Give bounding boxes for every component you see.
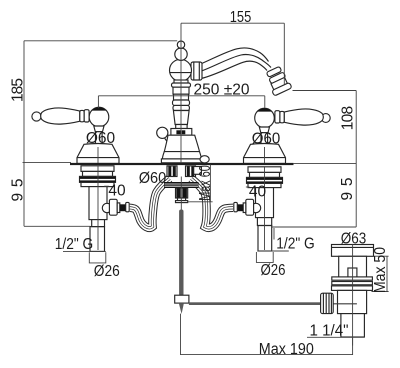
dim 95 right extension	[272, 226, 356, 228]
handle ball joint	[89, 107, 109, 127]
ring bar 3	[332, 286, 373, 291]
escutcheon right	[244, 144, 286, 164]
svg-text:1/2" G: 1/2" G	[55, 236, 94, 253]
lower pipe	[90, 227, 105, 252]
bell skirt	[162, 152, 201, 159]
svg-text:1 1/4": 1 1/4"	[310, 322, 349, 339]
CENTER BELOW DECK	[164, 166, 321, 314]
column bulge 3	[173, 105, 189, 110]
svg-text:Ø60: Ø60	[139, 170, 167, 187]
washer plate 2	[83, 171, 113, 176]
dim 250 line	[98, 95, 264, 97]
escutcheon centerline right	[264, 147, 266, 163]
valve dark block	[237, 204, 243, 211]
svg-text:1/2" G: 1/2" G	[276, 235, 315, 252]
dim Max50 top tick	[373, 255, 388, 257]
horizontal pop-up rod	[189, 302, 321, 305]
ball dark cap	[92, 107, 107, 110]
drain 1 1/4 underline	[307, 336, 364, 338]
dim O26 right bracket	[256, 252, 273, 262]
rod clamp block	[175, 295, 189, 303]
spout tube middle curve	[201, 55, 271, 72]
handle neck	[259, 127, 269, 133]
finial ball small	[177, 41, 184, 48]
tail pipe	[341, 314, 365, 337]
finial ball large	[175, 48, 187, 60]
rod inside drain	[333, 303, 357, 305]
vertical pull rod	[179, 210, 183, 297]
deck thin extension left	[23, 161, 72, 163]
lever small ball	[321, 114, 330, 123]
deck thick line	[70, 163, 294, 165]
valve ball	[102, 203, 111, 212]
center axis thin	[180, 177, 182, 210]
center connector right	[186, 166, 196, 177]
tail ring	[178, 198, 186, 201]
column bulge 1	[172, 83, 191, 87]
svg-text:250 ±20: 250 ±20	[194, 82, 250, 99]
sphere equator	[170, 72, 192, 74]
dim Max50 bottom tick	[372, 291, 389, 293]
rod taper tip	[179, 303, 184, 314]
upper body	[339, 256, 367, 277]
handle ball joint	[255, 108, 275, 128]
svg-text:40: 40	[108, 182, 126, 199]
dim Max50 vertical	[386, 256, 388, 291]
dim 108/95 right vertical line	[355, 91, 357, 228]
tail collar	[176, 201, 188, 203]
handle neck	[94, 126, 104, 132]
svg-text:Ø26: Ø26	[94, 263, 120, 280]
DECK	[70, 163, 294, 165]
step box	[257, 218, 271, 226]
threaded tail	[176, 188, 188, 198]
spray head	[264, 65, 292, 96]
lever barrel	[284, 109, 323, 125]
faucet centerline	[180, 23, 182, 163]
flange	[332, 245, 374, 257]
deck oval	[200, 156, 209, 163]
ring bar 2	[332, 282, 373, 285]
dim 155 right extension through spray head	[283, 23, 285, 84]
HOSES	[130, 179, 233, 228]
bell base	[161, 159, 202, 163]
column thin neck	[176, 125, 187, 129]
deck thin extension right	[293, 162, 356, 164]
column segment 2	[173, 87, 189, 94]
CENTRAL FAUCET	[157, 41, 292, 163]
threaded shank	[89, 187, 107, 220]
dim 40 right tick	[246, 186, 250, 188]
RIGHT INLET BELOW DECK	[234, 167, 283, 251]
threaded shank	[256, 188, 274, 218]
lower pipe	[258, 226, 272, 252]
svg-text:Ø63: Ø63	[341, 231, 367, 248]
left pipe bottom / half inch G underline	[63, 250, 106, 252]
dim 40 left tick	[104, 185, 109, 187]
handle stem	[261, 133, 268, 144]
hose left	[130, 179, 170, 228]
set screw square	[348, 268, 357, 277]
LEFT INLET BELOW DECK	[80, 166, 130, 252]
svg-text:Max 50: Max 50	[372, 247, 389, 293]
lever ferrule ring 1	[80, 110, 84, 121]
bell dome	[164, 135, 199, 151]
spout attachment	[191, 62, 202, 80]
dim 155 horizontal line	[181, 22, 284, 24]
svg-text:Max 60: Max 60	[197, 165, 214, 201]
column taper neck	[173, 111, 189, 125]
valve hex	[246, 199, 254, 215]
center nut bar	[164, 182, 199, 188]
step box	[92, 220, 105, 227]
svg-text:Ø60: Ø60	[252, 131, 281, 148]
dim Max60 vertical	[209, 165, 211, 202]
drain pull stem	[165, 138, 171, 145]
ball dark cap	[257, 108, 272, 111]
spout tube top curve	[201, 48, 269, 64]
gasket dark	[247, 177, 283, 183]
svg-text:Max 190: Max 190	[259, 341, 314, 358]
center connector left	[167, 166, 177, 177]
valve hex	[109, 199, 117, 215]
drain pull knob	[157, 127, 168, 138]
spout tube bottom curve	[201, 61, 267, 78]
valve gap ring	[117, 203, 120, 213]
column bulge 2	[173, 100, 190, 105]
washer plate 1	[248, 167, 281, 173]
dim 185 top extension to spout finial	[24, 40, 177, 42]
ring bar 1	[332, 277, 373, 280]
gasket dark	[80, 176, 116, 182]
shank centerline	[264, 167, 266, 250]
dim 108 top extension from spray tip	[293, 90, 357, 92]
svg-text:Ø60: Ø60	[86, 130, 116, 147]
escutcheon centerline left	[97, 147, 99, 163]
svg-text:108: 108	[340, 106, 357, 130]
right half inch G leader tick	[273, 228, 275, 240]
valve dark block	[120, 204, 126, 211]
dim Max60 bottom tick	[188, 201, 213, 203]
column segment 3	[174, 94, 189, 100]
drain centerline	[352, 244, 354, 345]
washer plate 2	[250, 172, 280, 177]
lever barrel	[41, 108, 80, 124]
lever ferrule ring 1	[280, 111, 284, 122]
washer plate 1	[81, 166, 114, 172]
valve ring	[126, 202, 130, 211]
RIGHT HANDLE	[244, 108, 331, 163]
lever small ball	[32, 112, 41, 121]
washer plate 3	[248, 183, 281, 187]
linkage box	[194, 167, 202, 175]
hose right	[191, 179, 233, 228]
dim O26 left bracket	[89, 252, 106, 263]
lever ferrule ring 2	[275, 111, 280, 123]
svg-text:185: 185	[9, 78, 26, 102]
shank centerline	[97, 166, 99, 250]
escutcheon left	[77, 144, 119, 164]
valve ring	[234, 202, 238, 211]
collar box	[171, 129, 192, 136]
dim 250 left hook	[97, 96, 99, 108]
dim Max190 bracket	[181, 314, 353, 355]
DRAIN ASSEMBLY	[321, 245, 374, 338]
dim 250 right hook	[264, 96, 266, 108]
dim 95 left bottom extension	[24, 225, 90, 227]
valve gap ring	[243, 203, 246, 213]
right pipe bottom underline	[258, 250, 289, 252]
body sphere	[170, 59, 192, 81]
lower body	[338, 290, 367, 313]
collar dark squares	[176, 130, 180, 134]
svg-text:155: 155	[230, 9, 252, 26]
washer plate 3	[81, 182, 114, 186]
dim 185/95 left vertical line	[23, 41, 25, 227]
LEFT HANDLE	[32, 107, 119, 163]
lever ferrule ring 2	[84, 110, 89, 122]
valve ball	[251, 203, 260, 212]
column segment 1	[174, 80, 188, 83]
knurled knob	[321, 293, 334, 313]
svg-text:Ø26: Ø26	[261, 262, 286, 279]
svg-text:40: 40	[249, 184, 267, 201]
handle stem	[96, 132, 103, 144]
